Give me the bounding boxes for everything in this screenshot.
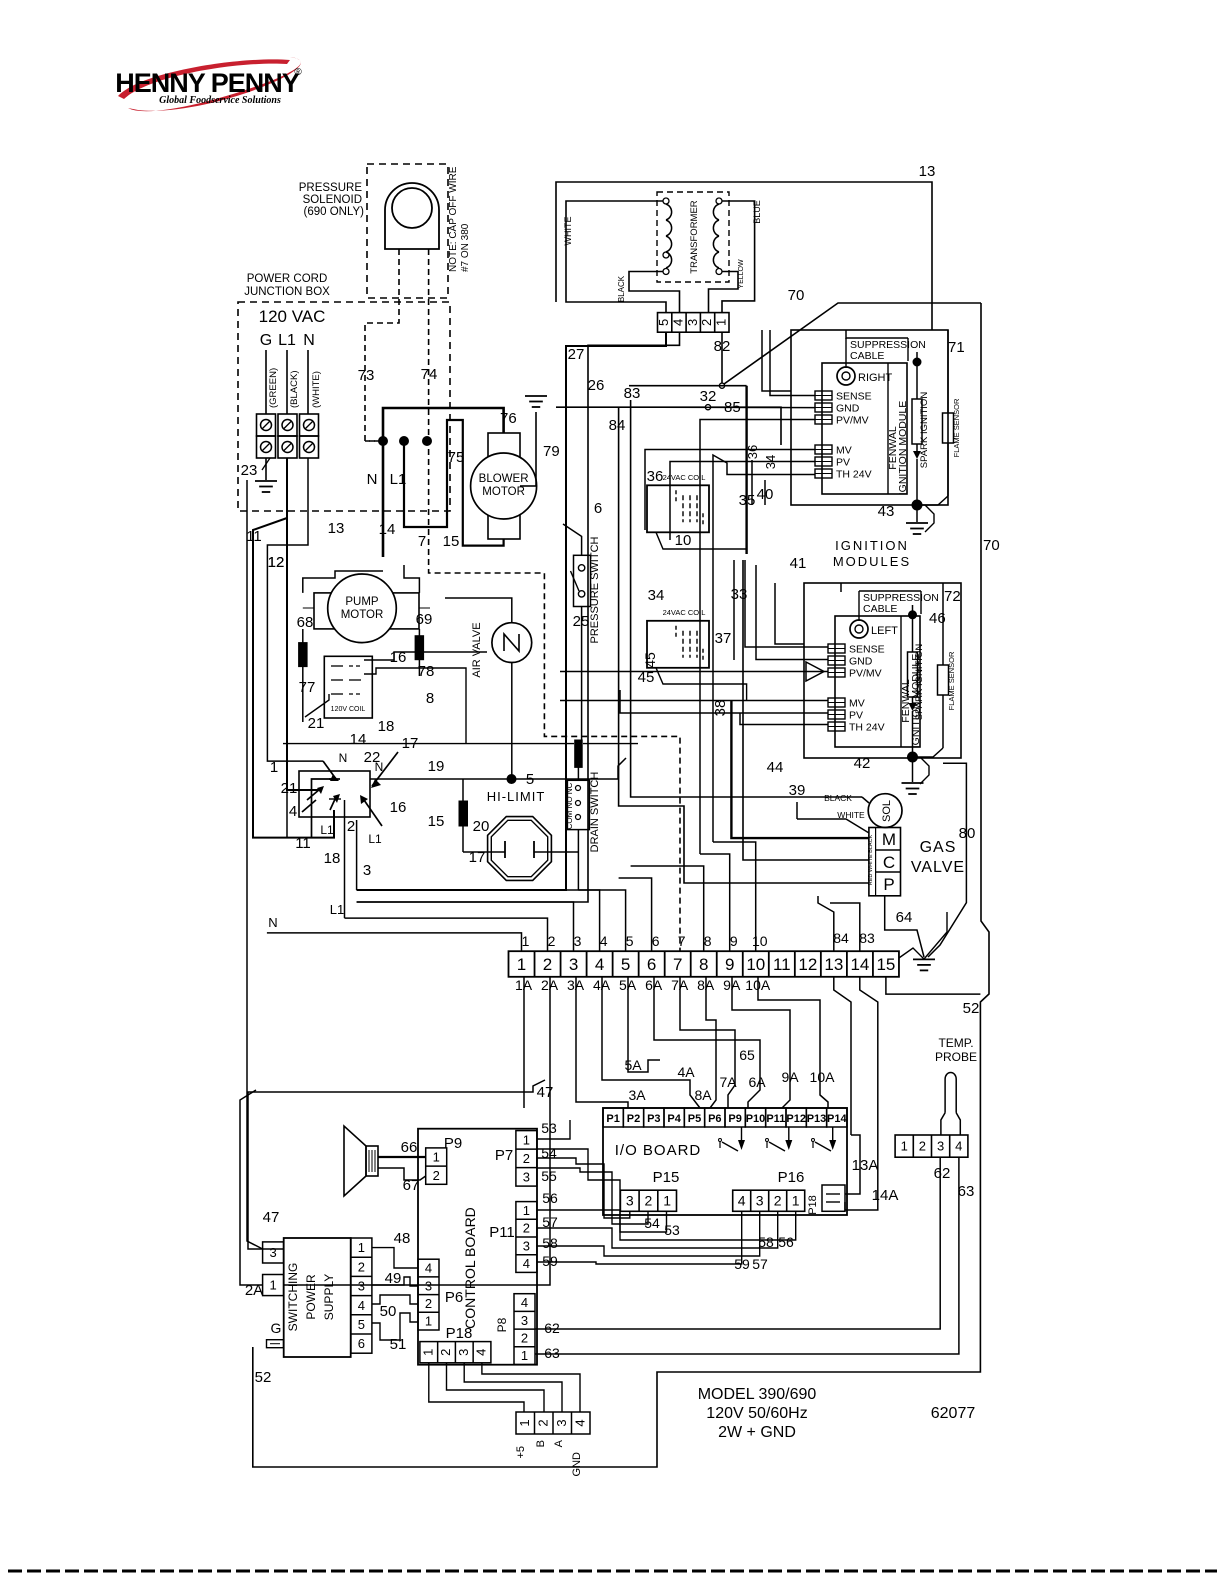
wire 70 long right xyxy=(253,303,1000,1467)
svg-text:6: 6 xyxy=(652,933,660,949)
pump motor M2 xyxy=(314,574,419,643)
svg-text:(690 ONLY): (690 ONLY) xyxy=(303,206,364,218)
svg-text:52: 52 xyxy=(963,1000,980,1017)
svg-text:27: 27 xyxy=(568,346,585,363)
label 6 25 xyxy=(573,500,603,630)
svg-text:4: 4 xyxy=(521,1295,528,1310)
svg-text:P3: P3 xyxy=(647,1113,660,1125)
label 12 xyxy=(268,554,285,571)
svg-text:GND: GND xyxy=(849,656,873,668)
label hi-limit xyxy=(487,789,546,804)
wire black xyxy=(617,272,680,313)
svg-text:34: 34 xyxy=(648,587,665,604)
svg-text:3: 3 xyxy=(523,1169,530,1184)
svg-text:PUMP: PUMP xyxy=(345,596,379,608)
svg-text:3: 3 xyxy=(937,1139,944,1154)
svg-text:N: N xyxy=(375,760,384,774)
svg-text:63: 63 xyxy=(544,1345,560,1361)
svg-text:1: 1 xyxy=(425,1314,432,1329)
svg-text:CONTROL BOARD: CONTROL BOARD xyxy=(462,1207,478,1329)
relay coil 24VAC lower xyxy=(647,587,709,668)
svg-text:LEFT: LEFT xyxy=(871,625,898,637)
svg-text:77: 77 xyxy=(299,679,316,696)
svg-text:I/O BOARD: I/O BOARD xyxy=(615,1142,702,1159)
svg-text:P11: P11 xyxy=(489,1224,515,1241)
svg-text:COM NO NC: COM NO NC xyxy=(565,782,574,829)
svg-text:53: 53 xyxy=(664,1222,680,1238)
wire 14A xyxy=(845,1125,878,1210)
label 21 18 16 8 xyxy=(308,649,435,735)
svg-text:#7 ON 380: #7 ON 380 xyxy=(460,223,471,272)
suppression wire right xyxy=(762,330,846,391)
label 120 VAC xyxy=(259,307,326,326)
label pressure solenoid xyxy=(299,182,364,218)
svg-text:P5: P5 xyxy=(688,1113,701,1125)
svg-text:L1: L1 xyxy=(278,332,296,349)
svg-text:3: 3 xyxy=(269,1245,276,1260)
svg-text:6: 6 xyxy=(594,500,602,517)
PSU left terminals xyxy=(263,1242,284,1296)
svg-text:3: 3 xyxy=(456,1349,471,1356)
PSU G terminal xyxy=(267,1320,284,1348)
svg-text:4A: 4A xyxy=(677,1064,695,1080)
svg-text:5: 5 xyxy=(656,319,671,326)
wire 9A xyxy=(732,977,799,1108)
terminal block TB1 xyxy=(257,414,319,458)
wire 19 long xyxy=(283,743,638,745)
svg-text:1: 1 xyxy=(663,1193,671,1209)
svg-text:70: 70 xyxy=(983,537,1000,554)
pressure switch PS2 xyxy=(571,555,591,606)
svg-text:MOTOR: MOTOR xyxy=(482,486,525,498)
svg-text:18: 18 xyxy=(324,850,341,867)
left flame sensor xyxy=(913,583,957,757)
svg-text:L1: L1 xyxy=(368,832,382,846)
wire coil out xyxy=(305,652,487,744)
svg-text:5A: 5A xyxy=(624,1057,642,1073)
wire 47 top xyxy=(240,1080,553,1285)
P18 control connector xyxy=(420,1325,491,1363)
wire 13 down xyxy=(834,977,851,1115)
svg-text:1: 1 xyxy=(521,1348,528,1363)
right flame sensor xyxy=(917,330,961,505)
svg-text:WHITE: WHITE xyxy=(563,217,573,246)
wire 14 down xyxy=(860,977,878,1125)
svg-text:84: 84 xyxy=(609,417,626,434)
pressure solenoid dashed enclosure xyxy=(367,164,448,298)
svg-text:FLAME SENSOR: FLAME SENSOR xyxy=(952,398,961,457)
wire 1A xyxy=(523,977,525,1108)
svg-text:N: N xyxy=(367,471,378,488)
wire 74 dashed xyxy=(421,249,680,951)
svg-text:47: 47 xyxy=(537,1084,554,1101)
svg-text:PROBE: PROBE xyxy=(935,1050,977,1064)
wire G xyxy=(266,350,279,414)
label 33 37 45 38 xyxy=(638,586,748,716)
svg-text:54: 54 xyxy=(644,1215,660,1231)
ground blower xyxy=(520,396,560,486)
svg-text:4: 4 xyxy=(600,933,608,949)
svg-text:14: 14 xyxy=(379,521,396,538)
svg-text:76: 76 xyxy=(500,410,517,427)
svg-text:3: 3 xyxy=(358,1279,365,1294)
svg-text:6A: 6A xyxy=(748,1074,766,1090)
svg-text:15: 15 xyxy=(876,955,895,974)
terminal strip top labels xyxy=(522,930,875,949)
wire to terminal 8 xyxy=(631,866,704,951)
svg-text:P16: P16 xyxy=(778,1169,805,1186)
I/O board xyxy=(603,1108,847,1215)
logo Henny Penny xyxy=(115,57,302,111)
svg-text:71: 71 xyxy=(948,339,965,356)
svg-text:P18: P18 xyxy=(446,1325,473,1342)
svg-text:4: 4 xyxy=(572,1419,587,1426)
svg-text:24VAC COIL: 24VAC COIL xyxy=(663,473,706,482)
svg-text:2: 2 xyxy=(521,1331,528,1346)
P9 connector xyxy=(426,1135,462,1184)
svg-text:P12: P12 xyxy=(786,1113,806,1125)
right spark ignition xyxy=(912,352,930,505)
label 80 64 xyxy=(896,825,976,926)
label 23 xyxy=(241,458,270,479)
svg-text:5: 5 xyxy=(626,933,634,949)
svg-text:4: 4 xyxy=(289,803,297,820)
svg-text:(BLACK): (BLACK) xyxy=(289,371,300,408)
label 42 xyxy=(854,755,871,772)
svg-text:47: 47 xyxy=(263,1209,280,1226)
wire 56 57 58 59 p16 xyxy=(537,1210,796,1272)
wire 53 54 p15 xyxy=(537,1120,680,1238)
label 46 xyxy=(929,610,946,627)
node N junction xyxy=(365,437,432,446)
hi-limit thermostat HL1 xyxy=(488,817,552,881)
svg-text:42: 42 xyxy=(854,755,871,772)
svg-text:CABLE: CABLE xyxy=(850,350,884,362)
svg-text:12: 12 xyxy=(268,554,285,571)
label 71 xyxy=(948,339,965,356)
label power cord junction box xyxy=(244,273,330,298)
wire relay feeds xyxy=(253,458,357,918)
svg-text:2: 2 xyxy=(543,955,552,974)
svg-text:P8: P8 xyxy=(495,1317,509,1332)
svg-text:4: 4 xyxy=(358,1298,365,1313)
svg-text:2: 2 xyxy=(699,319,714,326)
svg-text:P10: P10 xyxy=(746,1113,766,1125)
svg-text:1: 1 xyxy=(269,1278,276,1293)
drain switch S2 xyxy=(565,767,601,890)
svg-text:9A: 9A xyxy=(781,1069,799,1085)
svg-text:37: 37 xyxy=(715,630,732,647)
svg-text:P4: P4 xyxy=(667,1113,681,1125)
svg-text:M: M xyxy=(882,830,896,849)
svg-text:10: 10 xyxy=(675,532,692,549)
wire 7A xyxy=(680,977,737,1108)
svg-text:43: 43 xyxy=(878,503,895,520)
svg-text:69: 69 xyxy=(416,611,433,628)
svg-text:2: 2 xyxy=(523,1221,530,1236)
svg-text:2: 2 xyxy=(358,1259,365,1274)
svg-text:GND: GND xyxy=(571,1452,583,1477)
svg-text:34: 34 xyxy=(763,455,778,469)
svg-text:14: 14 xyxy=(350,731,367,748)
svg-text:PV/MV: PV/MV xyxy=(836,415,869,427)
svg-text:BLACK: BLACK xyxy=(824,793,852,803)
svg-text:P11: P11 xyxy=(766,1113,785,1125)
svg-text:9: 9 xyxy=(730,933,738,949)
svg-text:66: 66 xyxy=(401,1139,418,1156)
wire white gas xyxy=(797,802,869,833)
wire 26 xyxy=(357,332,680,902)
svg-text:TRANSFORMER: TRANSFORMER xyxy=(689,200,700,274)
svg-text:5: 5 xyxy=(621,955,630,974)
P8 connector xyxy=(495,1294,535,1365)
svg-text:44: 44 xyxy=(767,759,784,776)
svg-text:7: 7 xyxy=(673,955,682,974)
svg-text:24VAC COIL: 24VAC COIL xyxy=(663,608,706,617)
svg-text:6: 6 xyxy=(647,955,656,974)
wire 13A xyxy=(845,1115,860,1194)
wire 11 12 trunk xyxy=(246,480,287,1249)
label pressure switch xyxy=(589,536,601,643)
wire pressure switch top xyxy=(563,524,582,555)
temp probe xyxy=(935,1036,977,1135)
svg-text:IGNITION: IGNITION xyxy=(835,538,909,553)
svg-text:55: 55 xyxy=(541,1168,557,1184)
svg-text:8: 8 xyxy=(704,933,712,949)
svg-text:120V 50/60Hz: 120V 50/60Hz xyxy=(706,1405,807,1422)
svg-text:GND: GND xyxy=(836,403,860,415)
wire blue xyxy=(722,200,762,312)
bottom dashed border xyxy=(8,1570,1217,1573)
wire 10A xyxy=(758,977,835,1108)
svg-text:59: 59 xyxy=(542,1253,558,1269)
wire 83 trunk xyxy=(624,385,862,797)
wire to terminal 3 xyxy=(357,902,574,951)
svg-text:N: N xyxy=(268,915,277,930)
svg-text:SENSE: SENSE xyxy=(836,391,872,403)
svg-text:38: 38 xyxy=(712,700,729,717)
svg-text:16: 16 xyxy=(390,799,407,816)
svg-text:56: 56 xyxy=(778,1234,794,1250)
svg-text:SOLENOID: SOLENOID xyxy=(303,194,362,206)
svg-text:32: 32 xyxy=(700,388,717,405)
svg-text:4: 4 xyxy=(671,319,686,326)
wire 33 40 verticals xyxy=(734,460,765,660)
svg-text:26: 26 xyxy=(588,377,605,394)
wire black gas xyxy=(862,797,869,803)
svg-text:Global Foodservice Solutions: Global Foodservice Solutions xyxy=(159,95,281,106)
svg-text:58: 58 xyxy=(542,1235,558,1251)
transformer T1 dashed box xyxy=(657,192,729,282)
svg-text:(GREEN): (GREEN) xyxy=(268,368,279,408)
label 13A 14A xyxy=(852,1157,899,1204)
svg-text:4: 4 xyxy=(523,1256,530,1271)
svg-text:62: 62 xyxy=(934,1165,951,1182)
svg-text:1: 1 xyxy=(713,319,728,326)
svg-text:8: 8 xyxy=(699,955,708,974)
wire 64 gas to ground xyxy=(885,896,924,957)
wire air valve xyxy=(445,598,512,779)
svg-text:7: 7 xyxy=(418,533,426,550)
wire 39 M heavy xyxy=(731,700,869,838)
wire N xyxy=(308,350,322,414)
ground terminal strip xyxy=(899,912,947,970)
svg-text:+5: +5 xyxy=(515,1446,527,1459)
svg-text:3: 3 xyxy=(554,1419,569,1426)
wire 2A xyxy=(245,977,550,1299)
power cord junction box dashed xyxy=(238,302,450,511)
wire psu to p6 xyxy=(372,1248,418,1340)
svg-text:73: 73 xyxy=(358,367,375,384)
svg-text:CABLE: CABLE xyxy=(863,603,897,615)
svg-text:6: 6 xyxy=(358,1336,365,1351)
svg-text:POWER CORD: POWER CORD xyxy=(247,273,328,285)
wire 5A xyxy=(624,977,660,1073)
note cap off wire #7 on 380 xyxy=(448,166,471,272)
svg-text:POWER: POWER xyxy=(304,1274,318,1320)
control board xyxy=(418,1129,537,1365)
wire 27 xyxy=(357,332,666,890)
wire pressure switch bottom xyxy=(581,607,583,741)
svg-text:10: 10 xyxy=(752,933,768,949)
svg-text:51: 51 xyxy=(390,1336,407,1353)
transformer T1 xyxy=(663,198,722,275)
wire speaker xyxy=(378,1157,426,1180)
svg-text:SPARK IGNITION: SPARK IGNITION xyxy=(914,644,925,721)
suppression wire left xyxy=(775,583,841,644)
svg-text:68: 68 xyxy=(297,614,314,631)
node right module ground xyxy=(906,500,934,534)
svg-text:13: 13 xyxy=(919,163,936,180)
speaker SP1 xyxy=(344,1126,378,1196)
resistor drain xyxy=(575,740,583,767)
label 53 54 55 xyxy=(541,1120,557,1184)
svg-text:3: 3 xyxy=(569,955,578,974)
label 65 xyxy=(739,1047,755,1063)
label 43 xyxy=(878,503,895,520)
svg-text:SPARK IGNITION: SPARK IGNITION xyxy=(919,392,930,469)
svg-text:2: 2 xyxy=(774,1193,782,1209)
svg-text:A: A xyxy=(553,1439,565,1447)
svg-text:62: 62 xyxy=(544,1320,560,1336)
svg-text:HENNY PENNY: HENNY PENNY xyxy=(115,68,300,98)
svg-text:1: 1 xyxy=(523,1132,530,1147)
resistor 77 xyxy=(299,629,316,722)
svg-text:59: 59 xyxy=(734,1256,750,1272)
svg-text:PV: PV xyxy=(836,457,850,469)
node 5 junction xyxy=(507,771,534,788)
svg-text:15: 15 xyxy=(428,813,445,830)
svg-text:FLAME SENSOR: FLAME SENSOR xyxy=(947,651,956,710)
svg-text:50: 50 xyxy=(380,1303,397,1320)
svg-text:G: G xyxy=(260,332,272,349)
svg-text:70: 70 xyxy=(788,287,805,304)
svg-text:4: 4 xyxy=(955,1139,962,1154)
svg-text:(WHITE): (WHITE) xyxy=(311,371,322,408)
svg-text:2: 2 xyxy=(548,933,556,949)
svg-text:35: 35 xyxy=(739,492,756,509)
wire 6A xyxy=(654,977,766,1108)
I/O board pin header P1-P14 xyxy=(603,1108,847,1127)
svg-text:P2: P2 xyxy=(627,1113,640,1125)
svg-text:23: 23 xyxy=(241,462,258,479)
label 62 63 xyxy=(544,1320,560,1361)
label 48 49 50 51 xyxy=(380,1230,411,1353)
wire 44 C xyxy=(743,560,869,860)
svg-text:2: 2 xyxy=(645,1193,653,1209)
svg-text:MOTOR: MOTOR xyxy=(341,609,384,621)
wire 3A xyxy=(576,977,646,1108)
label 68 69 xyxy=(297,611,433,631)
svg-text:56: 56 xyxy=(542,1190,558,1206)
svg-text:TH 24V: TH 24V xyxy=(836,469,872,481)
wire to terminal 1 xyxy=(267,915,522,951)
gas valve terminals MCP xyxy=(868,828,901,896)
svg-text:YELLOW: YELLOW xyxy=(738,259,745,289)
svg-text:3A: 3A xyxy=(628,1087,646,1103)
svg-text:19: 19 xyxy=(428,758,445,775)
wire p18 to connector xyxy=(429,1363,580,1412)
svg-text:5: 5 xyxy=(358,1317,365,1332)
svg-text:74: 74 xyxy=(421,366,438,383)
svg-text:1: 1 xyxy=(433,1150,440,1165)
svg-text:BLOWER: BLOWER xyxy=(479,473,529,485)
blower motor B1 xyxy=(471,433,537,539)
svg-text:N: N xyxy=(303,332,315,349)
svg-text:2: 2 xyxy=(523,1151,530,1166)
svg-text:4: 4 xyxy=(595,955,604,974)
svg-text:14: 14 xyxy=(850,955,869,974)
svg-text:PV: PV xyxy=(849,710,863,722)
svg-text:3: 3 xyxy=(363,862,371,879)
svg-text:8: 8 xyxy=(426,690,434,707)
svg-text:120 VAC: 120 VAC xyxy=(259,307,326,326)
svg-text:18: 18 xyxy=(378,718,395,735)
svg-text:PV/MV: PV/MV xyxy=(849,668,882,680)
svg-text:15: 15 xyxy=(443,533,460,550)
switching power supply PSU xyxy=(284,1238,351,1357)
wire 85 trunk xyxy=(745,386,747,554)
wire 84 to 13 xyxy=(818,896,834,951)
wire left module pins xyxy=(560,560,828,725)
svg-text:SUPPLY: SUPPLY xyxy=(322,1274,336,1320)
relay coil 24VAC upper xyxy=(647,468,709,532)
svg-text:83: 83 xyxy=(624,385,641,402)
svg-text:82: 82 xyxy=(714,338,731,355)
svg-text:41: 41 xyxy=(790,555,807,572)
wire 73 dashed xyxy=(358,249,399,441)
outer box top xyxy=(556,163,935,330)
svg-text:78: 78 xyxy=(418,663,435,680)
svg-text:79: 79 xyxy=(543,443,560,460)
transformer terminal strip xyxy=(656,313,729,333)
svg-text:N: N xyxy=(339,751,348,765)
wire hi-limit right xyxy=(534,851,578,853)
wire pump feeds xyxy=(303,565,430,608)
svg-text:1: 1 xyxy=(792,1193,800,1209)
svg-text:52: 52 xyxy=(255,1369,272,1386)
wire to terminal 2 xyxy=(330,902,548,951)
svg-text:4: 4 xyxy=(738,1193,746,1209)
svg-text:2: 2 xyxy=(438,1349,453,1356)
svg-text:1: 1 xyxy=(517,955,526,974)
node left module ground xyxy=(902,752,930,794)
svg-text:64: 64 xyxy=(896,909,913,926)
wire 10 xyxy=(656,532,747,549)
wire right module pins xyxy=(645,330,815,854)
svg-text:36: 36 xyxy=(647,468,664,485)
label 47 52 psu xyxy=(255,1209,280,1386)
